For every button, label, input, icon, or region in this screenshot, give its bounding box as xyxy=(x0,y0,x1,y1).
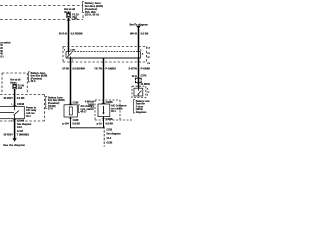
wire label 30 RD/Y xyxy=(3,133,29,136)
relay internals: coil bar + switch xyxy=(0,107,19,119)
svg-text:T (WH/BK): T (WH/BK) xyxy=(17,133,30,136)
wire: relay output down to arrow xyxy=(14,119,16,139)
svg-text:0.5 BK: 0.5 BK xyxy=(141,33,149,36)
svg-text:S-117: S-117 xyxy=(17,130,24,133)
svg-text:P-GN/BU: P-GN/BU xyxy=(105,67,116,70)
connector C270 label xyxy=(132,74,150,85)
CJB inner bus box xyxy=(66,52,141,58)
svg-text:40-1: 40-1 xyxy=(111,110,116,113)
relay dashed enclosure (BJB3) xyxy=(0,95,45,122)
CJB right side label fragments xyxy=(142,48,151,65)
pin tick + C1035 label (compressor top) xyxy=(102,102,106,104)
wire inside CJB (right end pass-through) xyxy=(138,52,140,58)
svg-text:13-5: 13-5 xyxy=(17,126,22,129)
svg-text:P-GN/BU: P-GN/BU xyxy=(141,67,150,70)
svg-text:T-8(B): T-8(B) xyxy=(87,104,94,106)
wire: from arrow down to junction box xyxy=(138,28,140,52)
cycling switch right label with bracket xyxy=(79,105,80,113)
svg-text:0.5 BK/WH: 0.5 BK/WH xyxy=(72,67,85,70)
wire label 30 RD/BK xyxy=(59,33,83,36)
svg-text:0.8 BK: 0.8 BK xyxy=(105,123,113,126)
wire label 0.5 BK/WH xyxy=(62,67,85,70)
svg-text:20 A: 20 A xyxy=(31,80,36,83)
pin labels at CJB entries xyxy=(64,50,142,52)
svg-text:14-2: 14-2 xyxy=(106,137,111,140)
svg-text:C2: C2 xyxy=(147,53,150,55)
switch inside CJB (left end) xyxy=(67,52,72,58)
svg-text:2.5 RD: 2.5 RD xyxy=(17,97,25,100)
wire label YE-TN xyxy=(94,67,116,70)
pin tick + C135 label (cycling switch bottom) xyxy=(69,117,73,119)
wire: horizontal junction between drops xyxy=(71,127,104,129)
pin tick + C1048 label (relay top) xyxy=(13,104,17,106)
fuse F2.30 xyxy=(13,84,17,89)
arrow to other diagram (bottom left) xyxy=(12,138,16,141)
BJB lower-left dashed enclosure (fuse F2.30) xyxy=(2,73,27,95)
svg-text:1C: 1C xyxy=(147,57,150,59)
wire: fuse F2.30 down into relay xyxy=(14,89,16,107)
svg-text:G230: G230 xyxy=(106,141,113,144)
central junction box CJB dashed enclosure xyxy=(63,47,147,63)
svg-text:See the diagram: See the diagram xyxy=(3,143,25,147)
svg-text:C270: C270 xyxy=(141,74,147,77)
fuse value label F2.30 20A xyxy=(18,84,25,90)
svg-text:30 RD/Y: 30 RD/Y xyxy=(3,133,13,136)
wire: CJB left output down to cycling switch xyxy=(70,58,72,105)
svg-text:See diagram: See diagram xyxy=(106,133,120,136)
A/C cycling pressure switch box xyxy=(64,105,77,117)
ground run continuation (dashed) below junction xyxy=(103,126,105,146)
wire: fuse F2.15 down to junction box xyxy=(68,18,70,52)
BJB name text block with bracket xyxy=(83,2,84,13)
svg-text:C 15A: C 15A xyxy=(72,17,79,20)
svg-text:sw: sw xyxy=(147,91,150,93)
A/C demand switch dashed enclosure xyxy=(132,86,146,97)
legend text block (left margin) xyxy=(0,41,11,58)
pin tick at BJB exit xyxy=(67,20,71,22)
A/C demand switch box xyxy=(134,88,143,96)
wire label WH-BK xyxy=(130,33,149,36)
wire: CJB right output down to demand switch xyxy=(138,58,140,89)
ground run labels C230 / G230 xyxy=(106,128,120,144)
label: Hot at all times (top fuse) xyxy=(64,7,75,14)
wire label 0.8 BK (right drop) xyxy=(97,123,114,126)
pressure switch element xyxy=(69,107,72,115)
svg-text:0.8 BK: 0.8 BK xyxy=(72,123,80,126)
svg-text:4 BK/sld: 4 BK/sld xyxy=(85,101,95,104)
wire: cycling switch down to junction xyxy=(70,117,72,128)
pin tick + C135 label (cycling switch top) xyxy=(69,103,73,105)
A/C compressor clutch box xyxy=(98,104,110,117)
svg-text:C1035: C1035 xyxy=(106,118,114,121)
note text block below demand switch with bracket xyxy=(134,100,135,113)
svg-text:57-08: 57-08 xyxy=(62,67,69,70)
BJB3 name text block with bracket xyxy=(46,96,47,108)
svg-text:p-10: p-10 xyxy=(97,123,103,126)
wire label GN/BU xyxy=(128,67,151,70)
svg-text:xx switch: xx switch xyxy=(0,41,11,44)
wire label 2.5 RD xyxy=(3,97,24,100)
shared dashed line: BJB2 bottom / relay box top xyxy=(0,94,45,96)
svg-text:C2: C2 xyxy=(147,63,150,65)
svg-text:40-1: 40-1 xyxy=(26,115,31,118)
svg-text:p-104: p-104 xyxy=(62,123,69,126)
wire: CJB middle output down to compressor xyxy=(103,58,105,104)
relay right label: Power to ... xyxy=(26,106,37,117)
svg-text:14 BK/N: 14 BK/N xyxy=(141,83,150,86)
svg-text:0.5 RD/BK: 0.5 RD/BK xyxy=(71,33,83,36)
svg-text:30 R-B: 30 R-B xyxy=(59,33,67,36)
svg-text:C1035: C1035 xyxy=(106,101,114,104)
pin tick + C1035 label (compressor bottom) xyxy=(102,117,106,119)
switch symbol inside xyxy=(138,88,142,96)
svg-text:20A: 20A xyxy=(18,87,23,90)
svg-text:C230: C230 xyxy=(106,128,112,131)
arrow from other diagram xyxy=(136,26,141,29)
label: See diagram 13-5 xyxy=(17,123,31,129)
compressor right label xyxy=(111,105,127,114)
inline connector C270 symbol xyxy=(135,78,141,83)
svg-text:diagrams: diagrams xyxy=(136,111,147,114)
pin tick + C1048 label (relay bottom) xyxy=(13,119,17,121)
svg-text:30 RD/Y: 30 RD/Y xyxy=(3,97,13,100)
wire label 0.8 BK (left drop) xyxy=(62,123,80,126)
svg-text:(15 A, 30 A): (15 A, 30 A) xyxy=(85,12,99,16)
svg-text:S-R/TN: S-R/TN xyxy=(128,67,137,70)
svg-text:40-17: 40-17 xyxy=(80,111,87,114)
wire: compressor down to junction xyxy=(103,117,105,129)
A/C compressor clutch dashed enclosure xyxy=(95,100,134,120)
svg-text:YE-TN: YE-TN xyxy=(94,67,102,70)
clutch coil symbol with arrow xyxy=(103,106,105,113)
BJB2 name text block with bracket xyxy=(29,72,30,82)
svg-text:17-8: 17-8 xyxy=(48,108,53,111)
svg-text:1.0: 1.0 xyxy=(147,48,150,50)
demand switch right label fragments xyxy=(147,87,150,96)
battery junction box BJB (top) dashed enclosure xyxy=(0,6,83,20)
svg-text:WH-B: WH-B xyxy=(130,33,137,36)
compressor left label xyxy=(85,101,95,110)
svg-text:C135: C135 xyxy=(73,101,79,104)
fuse value label F2.15 15A xyxy=(72,13,79,19)
label: Hot at all times (lower fuse) xyxy=(10,79,20,85)
svg-text:C1048: C1048 xyxy=(17,119,25,122)
fuse F2.15 (top BJB) xyxy=(68,12,70,14)
A/C relay box xyxy=(0,107,24,119)
svg-text:C1048: C1048 xyxy=(17,103,25,106)
